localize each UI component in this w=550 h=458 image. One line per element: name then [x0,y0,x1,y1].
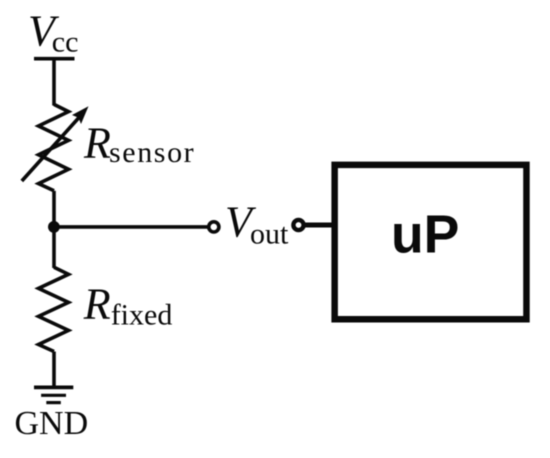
resistor R_fixed (zigzag) [39,267,69,351]
node A (divider output junction) [48,221,60,233]
terminal Vout (open circle) [209,222,219,232]
wire node to R_fixed [52,227,56,268]
label Vout [225,198,289,251]
svg-text:cc: cc [52,26,79,59]
svg-text:R: R [83,279,111,328]
wire uP terminal to uP box [305,223,333,228]
power label Vcc [28,7,78,59]
terminal uP input (open circle, thick) [293,220,303,230]
resistor R_sensor (variable, zigzag) [39,104,69,190]
wire R_sensor to node [52,191,56,227]
svg-text:R: R [83,119,111,168]
wire R_fixed to ground [52,352,56,388]
label R_sensor [83,119,195,169]
svg-text:uP: uP [391,205,459,264]
power rail Vcc bar [34,57,75,61]
svg-text:GND: GND [15,405,89,442]
wire Vcc bar to R_sensor [52,59,56,106]
label R_fixed [83,279,173,331]
arrow of variable resistor R_sensor [22,106,89,181]
svg-text:sensor: sensor [109,136,195,169]
wire node to Vout terminal [54,225,207,229]
microprocessor U1 (uP box) [335,165,527,319]
ground symbol [34,387,73,402]
svg-text:out: out [250,218,289,251]
svg-text:fixed: fixed [111,298,173,331]
